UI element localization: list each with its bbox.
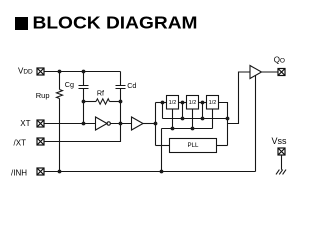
svg-text:Cd: Cd — [127, 81, 136, 90]
svg-text:Rf: Rf — [97, 89, 104, 98]
svg-text:1/2: 1/2 — [189, 100, 197, 106]
svg-text:1/2: 1/2 — [169, 100, 177, 106]
svg-text:/XT: /XT — [14, 139, 27, 148]
svg-text:VDD: VDD — [18, 66, 33, 75]
svg-text:XT: XT — [20, 119, 30, 128]
svg-text:/INH: /INH — [11, 168, 27, 177]
svg-text:QO: QO — [274, 56, 285, 65]
svg-text:Cg: Cg — [65, 80, 74, 89]
svg-text:Vss: Vss — [272, 136, 288, 146]
svg-text:PLL: PLL — [187, 142, 199, 149]
svg-text:1/2: 1/2 — [209, 100, 217, 106]
svg-text:BLOCK DIAGRAM: BLOCK DIAGRAM — [33, 13, 198, 33]
svg-text:Rup: Rup — [36, 91, 50, 100]
